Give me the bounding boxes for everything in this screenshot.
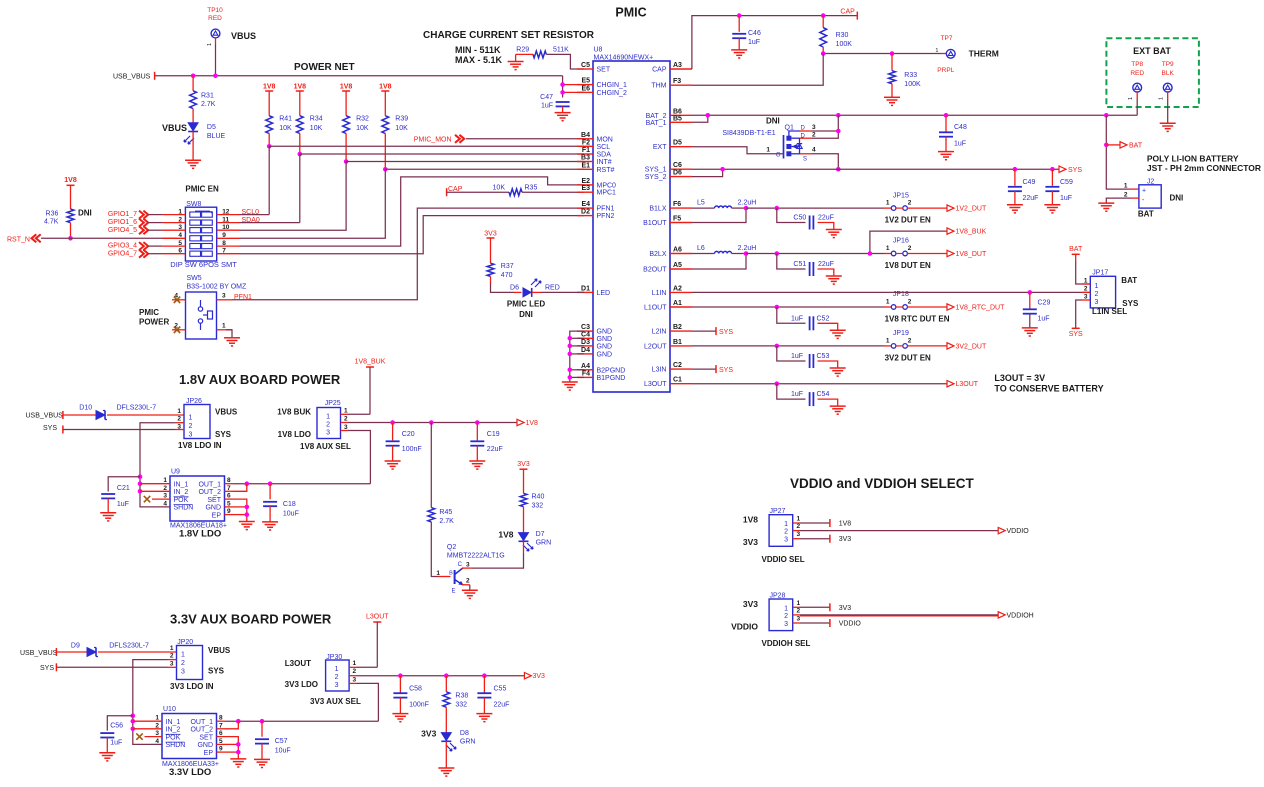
svg-text:GND: GND bbox=[597, 343, 613, 350]
svg-text:1: 1 bbox=[784, 521, 788, 528]
ground C49 bbox=[1007, 204, 1023, 206]
svg-text:D5: D5 bbox=[207, 124, 216, 131]
svg-text:F5: F5 bbox=[673, 216, 681, 223]
svg-text:GND: GND bbox=[597, 329, 613, 336]
wire R40 to D7 bbox=[523, 507, 525, 533]
svg-text:E6: E6 bbox=[581, 85, 590, 92]
svg-text:VDDIO SEL: VDDIO SEL bbox=[762, 555, 805, 564]
U8 right pin stubs and names bbox=[670, 68, 692, 70]
capacitor C19 22uF bbox=[476, 423, 478, 441]
ground C19 bbox=[469, 460, 485, 462]
svg-text:L1IN: L1IN bbox=[652, 290, 667, 297]
svg-text:SDA: SDA bbox=[597, 152, 612, 159]
svg-text:E2: E2 bbox=[581, 178, 590, 185]
svg-text:2: 2 bbox=[908, 245, 912, 252]
svg-text:L2OUT: L2OUT bbox=[644, 343, 667, 350]
junction SYS_2 bbox=[720, 167, 725, 172]
junction BAT B5 bbox=[706, 113, 711, 118]
capacitor C51 22uF bbox=[777, 254, 806, 270]
svg-text:1: 1 bbox=[797, 516, 801, 523]
svg-text:3: 3 bbox=[353, 676, 357, 683]
svg-text:C5: C5 bbox=[581, 62, 590, 69]
svg-text:GRN: GRN bbox=[536, 540, 552, 547]
svg-text:RST_N: RST_N bbox=[7, 236, 30, 243]
svg-text:INT#: INT# bbox=[597, 159, 612, 166]
svg-text:C2: C2 bbox=[673, 362, 682, 369]
junction C53 bbox=[775, 344, 780, 349]
svg-text:1: 1 bbox=[189, 415, 193, 422]
svg-text:GND: GND bbox=[205, 505, 221, 512]
svg-text:DFLS230L-7: DFLS230L-7 bbox=[117, 405, 157, 412]
wire power net to CHGIN bbox=[562, 76, 564, 98]
svg-text:C46: C46 bbox=[748, 30, 761, 37]
svg-text:22uF: 22uF bbox=[494, 702, 510, 709]
svg-text:R34: R34 bbox=[310, 116, 323, 123]
svg-text:BAT_1: BAT_1 bbox=[646, 120, 667, 127]
svg-text:B1: B1 bbox=[673, 339, 682, 346]
svg-text:PMIC: PMIC bbox=[139, 308, 159, 317]
svg-text:POK: POK bbox=[174, 497, 189, 504]
svg-text:D1: D1 bbox=[581, 285, 590, 292]
port BAT right bbox=[1106, 144, 1120, 146]
port L3OUT bbox=[947, 381, 954, 387]
wire D9 to JP20 pin1 bbox=[98, 651, 177, 653]
svg-text:2: 2 bbox=[908, 338, 912, 345]
svg-text:SYS_2: SYS_2 bbox=[645, 174, 667, 181]
wire JP30 pin2 3V3 rail bbox=[349, 675, 356, 677]
svg-text:C48: C48 bbox=[954, 124, 967, 131]
svg-text:BAT_2: BAT_2 bbox=[646, 113, 667, 120]
svg-text:L3OUT: L3OUT bbox=[956, 381, 979, 388]
wire L1IN row bbox=[692, 291, 1090, 293]
svg-text:C18: C18 bbox=[283, 501, 296, 508]
wire L1OUT row bbox=[692, 306, 884, 308]
svg-text:C4: C4 bbox=[581, 331, 590, 338]
svg-text:E: E bbox=[452, 589, 456, 595]
wire D5 to ground bbox=[192, 132, 194, 161]
junction gnd F4 bbox=[568, 375, 573, 380]
svg-text:1V8 DUT EN: 1V8 DUT EN bbox=[885, 261, 931, 270]
svg-text:3V3 AUX SEL: 3V3 AUX SEL bbox=[310, 697, 361, 706]
wire therm node bbox=[823, 53, 941, 55]
svg-text:OUT_2: OUT_2 bbox=[198, 489, 221, 496]
svg-text:L3OUT = 3V: L3OUT = 3V bbox=[994, 373, 1045, 383]
svg-text:L3OUT: L3OUT bbox=[285, 659, 311, 668]
svg-text:2: 2 bbox=[189, 423, 193, 430]
capacitor C18 10uF bbox=[269, 484, 271, 500]
svg-text:TP7: TP7 bbox=[941, 35, 953, 42]
svg-text:L1IN SEL: L1IN SEL bbox=[1092, 307, 1127, 316]
svg-text:10uF: 10uF bbox=[283, 511, 299, 518]
resistor R41 10K bbox=[266, 116, 273, 134]
ground C47 bbox=[555, 112, 571, 114]
svg-text:A3: A3 bbox=[673, 62, 682, 69]
svg-text:3V3: 3V3 bbox=[484, 231, 497, 238]
svg-text:GRN: GRN bbox=[460, 739, 476, 746]
svg-text:511K: 511K bbox=[553, 47, 569, 54]
LED D7 GRN bbox=[519, 533, 529, 541]
wire SDA to SW8 pin11 bbox=[299, 154, 301, 223]
svg-text:TP9: TP9 bbox=[1162, 61, 1174, 68]
svg-text:GPIO4_5: GPIO4_5 bbox=[108, 227, 137, 234]
ground R33 bbox=[884, 96, 900, 98]
svg-text:VDDIOH: VDDIOH bbox=[1007, 612, 1034, 619]
wire L6 to output bbox=[732, 253, 747, 255]
svg-text:C: C bbox=[458, 562, 463, 568]
svg-text:D4: D4 bbox=[581, 347, 590, 354]
wire U9 SET GND EP to ground bbox=[233, 499, 247, 521]
svg-text:RST#: RST# bbox=[597, 167, 615, 174]
svg-text:GND: GND bbox=[597, 336, 613, 343]
wire R36 to RST_N row bbox=[70, 223, 72, 239]
svg-text:1V8: 1V8 bbox=[839, 521, 852, 528]
LED D5 BLUE bbox=[188, 123, 198, 131]
svg-text:L3IN: L3IN bbox=[652, 367, 667, 374]
wire SYS to JP26 pin3 bbox=[63, 429, 175, 431]
svg-text:POWER: POWER bbox=[139, 318, 169, 327]
svg-text:1uF: 1uF bbox=[1038, 316, 1050, 323]
svg-text:Q2: Q2 bbox=[447, 544, 456, 551]
svg-text:1V8_BUK: 1V8_BUK bbox=[956, 229, 987, 236]
svg-text:1: 1 bbox=[886, 245, 890, 252]
svg-text:3V2_DUT: 3V2_DUT bbox=[956, 343, 987, 350]
svg-text:F2: F2 bbox=[582, 139, 590, 146]
capacitor C59 1uF bbox=[1051, 169, 1053, 186]
svg-text:1V8: 1V8 bbox=[379, 84, 392, 91]
capacitor C29 1uF bbox=[1029, 292, 1031, 308]
capacitor C20 100nF bbox=[392, 423, 394, 441]
svg-text:SHDN: SHDN bbox=[174, 505, 194, 512]
svg-text:C54: C54 bbox=[817, 391, 830, 398]
capacitor C46 1uF bbox=[738, 16, 740, 32]
svg-text:1.8V LDO: 1.8V LDO bbox=[179, 529, 221, 540]
ground C21 bbox=[100, 512, 116, 514]
svg-text:4: 4 bbox=[812, 147, 816, 154]
capacitor C21 1uF bbox=[108, 477, 140, 492]
wire 1V8 rail to R45 bbox=[430, 423, 432, 508]
svg-text:B1LX: B1LX bbox=[649, 206, 666, 213]
wire SDA row bbox=[300, 153, 584, 155]
svg-text:VDDIO: VDDIO bbox=[1007, 528, 1030, 535]
resistor R45 2.7K bbox=[428, 508, 435, 522]
svg-text:DFLS230L-7: DFLS230L-7 bbox=[109, 643, 149, 650]
wire JP25 pin3 to OUT_1 bbox=[341, 430, 349, 432]
ground C18 bbox=[262, 521, 278, 523]
wire TP9 to ground bbox=[1167, 92, 1169, 99]
svg-text:C1: C1 bbox=[673, 377, 682, 384]
ground Q2 bbox=[462, 589, 478, 591]
junction R45 bbox=[429, 420, 434, 425]
svg-text:1uF: 1uF bbox=[117, 501, 129, 508]
svg-text:22uF: 22uF bbox=[1023, 195, 1039, 202]
ground C20 bbox=[385, 460, 401, 462]
svg-text:R36: R36 bbox=[46, 210, 59, 217]
svg-text:L5: L5 bbox=[697, 200, 705, 207]
svg-text:2: 2 bbox=[1084, 286, 1088, 293]
svg-text:D2: D2 bbox=[581, 209, 590, 216]
junction SYS C49 bbox=[1013, 167, 1018, 172]
svg-text:OUT_2: OUT_2 bbox=[190, 727, 213, 734]
wire JP25 pin2 1V8 rail bbox=[341, 422, 349, 424]
svg-text:10K: 10K bbox=[279, 125, 292, 132]
svg-text:2: 2 bbox=[797, 607, 801, 614]
junction power net R31 bbox=[191, 74, 196, 79]
svg-text:1V8: 1V8 bbox=[498, 530, 513, 540]
junction U9 ep bbox=[245, 512, 250, 517]
junction therm R33 bbox=[890, 51, 895, 56]
junction C29 bbox=[1028, 290, 1033, 295]
port SYS right bbox=[1059, 166, 1066, 172]
svg-text:C56: C56 bbox=[110, 723, 123, 730]
svg-text:C50: C50 bbox=[793, 215, 806, 222]
svg-text:B1OUT: B1OUT bbox=[643, 220, 667, 227]
svg-text:3: 3 bbox=[1095, 299, 1099, 306]
port 3V3 rail bbox=[524, 673, 531, 679]
port 1V2_DUT bbox=[947, 205, 954, 211]
svg-text:R39: R39 bbox=[395, 116, 408, 123]
svg-text:1V8 LDO: 1V8 LDO bbox=[278, 430, 311, 439]
ground C59 bbox=[1044, 204, 1060, 206]
wire R38 to D8 bbox=[445, 707, 447, 732]
junction U10 gnd 5 bbox=[236, 742, 241, 747]
svg-text:JP17: JP17 bbox=[1092, 270, 1108, 277]
ground C53 bbox=[830, 367, 846, 369]
svg-text:22uF: 22uF bbox=[818, 261, 834, 268]
wire BAT_1 join bbox=[692, 115, 708, 122]
svg-text:BLK: BLK bbox=[1162, 70, 1175, 77]
resistor R40 332 bbox=[520, 493, 527, 506]
wire SW5 pin1 to ground bbox=[226, 330, 232, 338]
svg-text:R30: R30 bbox=[836, 32, 849, 39]
wire R45 to Q2 base bbox=[431, 522, 438, 577]
svg-text:POLY LI-ION BATTERY: POLY LI-ION BATTERY bbox=[1147, 154, 1239, 164]
svg-text:D8: D8 bbox=[460, 730, 469, 737]
junction C57 bbox=[260, 719, 265, 724]
wire JP30 pin1 bbox=[349, 666, 356, 668]
capacitor C48 1uF bbox=[945, 115, 947, 131]
wire R34 to bus bbox=[299, 134, 301, 155]
svg-text:VDDIOH SEL: VDDIOH SEL bbox=[762, 639, 811, 648]
svg-text:100nF: 100nF bbox=[409, 702, 429, 709]
svg-text:C19: C19 bbox=[487, 431, 500, 438]
svg-text:PMIC LED: PMIC LED bbox=[507, 300, 545, 309]
junction gnd C4 bbox=[568, 336, 573, 341]
junction power net TP10 bbox=[213, 74, 218, 79]
svg-text:1V8_RTC_DUT: 1V8_RTC_DUT bbox=[956, 305, 1006, 312]
svg-text:1V8 RTC DUT EN: 1V8 RTC DUT EN bbox=[885, 315, 950, 324]
svg-text:JP25: JP25 bbox=[325, 400, 341, 407]
svg-text:SHDN: SHDN bbox=[166, 742, 186, 749]
svg-text:PMIC_MON: PMIC_MON bbox=[414, 137, 452, 144]
wire OUT_1 net bbox=[233, 483, 370, 485]
svg-text:D7: D7 bbox=[536, 531, 545, 538]
svg-text:R41: R41 bbox=[279, 116, 292, 123]
svg-text:1V8 AUX SEL: 1V8 AUX SEL bbox=[300, 442, 351, 451]
svg-text:D3: D3 bbox=[581, 339, 590, 346]
svg-text:R33: R33 bbox=[904, 72, 917, 79]
svg-text:1V8: 1V8 bbox=[263, 84, 276, 91]
svg-text:3V3 LDO: 3V3 LDO bbox=[285, 680, 318, 689]
svg-text:PFN1: PFN1 bbox=[597, 206, 615, 213]
svg-text:100nF: 100nF bbox=[402, 446, 422, 453]
svg-text:1uF: 1uF bbox=[791, 315, 803, 322]
wire SCL0 from SW8 pin12 bbox=[240, 214, 270, 216]
svg-text:B4: B4 bbox=[581, 132, 590, 139]
junction C20 bbox=[390, 420, 395, 425]
wire SYS_2 join bbox=[692, 169, 723, 176]
junction R41 bbox=[267, 144, 272, 149]
svg-text:2: 2 bbox=[466, 578, 470, 585]
svg-text:C53: C53 bbox=[817, 353, 830, 360]
junction U10 ep bbox=[236, 750, 241, 755]
wire R32 to bus bbox=[345, 134, 347, 162]
svg-text:SYS_1: SYS_1 bbox=[645, 167, 667, 174]
junction R38 bbox=[444, 673, 449, 678]
wire JP19 to port bbox=[907, 345, 947, 347]
svg-text:RED: RED bbox=[545, 285, 560, 292]
wire SDA0 from SW8 pin11 bbox=[240, 222, 300, 224]
port 1V8 rail bbox=[517, 419, 524, 425]
svg-text:D6: D6 bbox=[673, 170, 682, 177]
svg-text:BAT: BAT bbox=[1138, 210, 1154, 219]
svg-text:MAX - 5.1K: MAX - 5.1K bbox=[455, 55, 503, 65]
wire PFN2 from SW8 pin7 bbox=[240, 216, 585, 254]
junction 1V8_BUK bbox=[868, 251, 873, 256]
svg-text:POK: POK bbox=[166, 734, 181, 741]
ground C51 bbox=[826, 275, 842, 277]
wire JP25 pin1 bbox=[341, 413, 349, 415]
svg-text:3: 3 bbox=[326, 430, 330, 437]
wire U8 ground bus bbox=[570, 331, 584, 382]
junction input C21 row bbox=[138, 474, 143, 479]
wire L3OUT row bbox=[692, 383, 947, 385]
junction L6 out bbox=[744, 251, 749, 256]
svg-text:1V8_DUT: 1V8_DUT bbox=[956, 251, 987, 258]
svg-text:U8: U8 bbox=[594, 47, 603, 54]
wire SCL row bbox=[269, 145, 584, 147]
svg-text:100K: 100K bbox=[836, 41, 853, 48]
wire JP17 pin3 to SYS bbox=[1076, 300, 1082, 328]
wire PFN1 to U8 bbox=[232, 208, 584, 300]
svg-text:1: 1 bbox=[886, 338, 890, 345]
svg-text:VDDIO: VDDIO bbox=[839, 621, 862, 628]
ground TP9 bbox=[1160, 122, 1176, 124]
svg-text:1: 1 bbox=[1128, 97, 1134, 100]
svg-text:1: 1 bbox=[177, 408, 181, 415]
svg-text:1: 1 bbox=[1095, 283, 1099, 290]
capacitor C55 22uF bbox=[483, 676, 485, 693]
svg-text:1uF: 1uF bbox=[954, 141, 966, 148]
svg-text:EP: EP bbox=[212, 512, 222, 519]
svg-text:1: 1 bbox=[797, 600, 801, 607]
port 1V8_BUK bbox=[947, 228, 954, 234]
svg-text:C59: C59 bbox=[1060, 179, 1073, 186]
svg-text:IN_2: IN_2 bbox=[166, 727, 181, 734]
ground J2 bbox=[1098, 202, 1114, 204]
switch SW8 pin stubs bbox=[162, 214, 185, 216]
wire J2 pin2 to ground bbox=[1131, 197, 1139, 199]
wire JP28 pin1 stub bbox=[793, 606, 800, 608]
svg-text:2.2uH: 2.2uH bbox=[738, 245, 757, 252]
svg-text:3V3: 3V3 bbox=[533, 673, 546, 680]
ground U10 bbox=[230, 758, 246, 760]
svg-text:B3: B3 bbox=[581, 155, 590, 162]
svg-text:A2: A2 bbox=[673, 285, 682, 292]
svg-text:U10: U10 bbox=[163, 706, 176, 713]
wire therm to THM pin bbox=[692, 54, 823, 86]
junction U9 gnd 5 bbox=[245, 505, 250, 510]
wire L5 to output bbox=[732, 207, 747, 209]
ground U8 bbox=[562, 381, 578, 383]
capacitor C50 22uF bbox=[777, 208, 806, 222]
svg-text:1.8V AUX BOARD POWER: 1.8V AUX BOARD POWER bbox=[179, 372, 341, 387]
svg-text:GPIO1_7: GPIO1_7 bbox=[108, 211, 137, 218]
wire MPC0 from SW8 pin8 bbox=[240, 177, 585, 246]
svg-text:470: 470 bbox=[501, 272, 513, 279]
port 3V2_DUT bbox=[947, 343, 954, 349]
svg-text:1V8 BUK: 1V8 BUK bbox=[277, 408, 311, 417]
port 1V8_RTC_DUT bbox=[947, 304, 954, 310]
resistor R34 10K bbox=[296, 116, 303, 134]
wire D6 to LED pin bbox=[532, 291, 541, 293]
svg-text:D9: D9 bbox=[71, 643, 80, 650]
junction C19 bbox=[475, 420, 480, 425]
svg-text:1: 1 bbox=[886, 299, 890, 306]
svg-text:B5: B5 bbox=[673, 115, 682, 122]
inductor L5 2.2uH bbox=[692, 207, 715, 209]
svg-text:22uF: 22uF bbox=[818, 215, 834, 222]
DNI X on U9 POK bbox=[144, 496, 150, 502]
svg-text:4: 4 bbox=[163, 500, 167, 507]
svg-text:1uF: 1uF bbox=[791, 391, 803, 398]
svg-text:DNI: DNI bbox=[78, 208, 92, 217]
svg-text:PRPL: PRPL bbox=[937, 67, 954, 74]
svg-text:E5: E5 bbox=[581, 78, 590, 85]
capacitor C49 22uF bbox=[1014, 169, 1016, 186]
wire SYS net bbox=[692, 168, 1059, 170]
svg-text:C49: C49 bbox=[1023, 179, 1036, 186]
svg-text:2: 2 bbox=[908, 299, 912, 306]
svg-text:1uF: 1uF bbox=[748, 39, 760, 46]
svg-text:L3OUT: L3OUT bbox=[644, 381, 667, 388]
svg-text:EXT BAT: EXT BAT bbox=[1133, 46, 1171, 56]
svg-text:L3OUT: L3OUT bbox=[366, 614, 389, 621]
svg-text:3: 3 bbox=[181, 669, 185, 676]
svg-text:1: 1 bbox=[935, 48, 938, 54]
wire R37 to D6 bbox=[490, 276, 492, 283]
junction gnd D3 bbox=[568, 344, 573, 349]
junction Q1 source SYS bbox=[836, 167, 841, 172]
wire R41 to bus bbox=[268, 134, 270, 147]
svg-text:10K: 10K bbox=[493, 185, 506, 192]
svg-text:E3: E3 bbox=[581, 185, 590, 192]
wire JP30 pin3 to U10 OUT bbox=[349, 682, 356, 684]
ground C29 bbox=[1022, 327, 1038, 329]
svg-text:SYS: SYS bbox=[1068, 167, 1082, 174]
svg-text:JP19: JP19 bbox=[893, 330, 909, 337]
wire 1V8_BUK branch bbox=[870, 231, 947, 253]
junction CHGIN_2 bbox=[560, 90, 565, 95]
svg-text:1: 1 bbox=[207, 43, 213, 46]
resistor R36 4.7K bbox=[67, 209, 74, 223]
ground C52 bbox=[830, 329, 846, 331]
port VDDIO bbox=[998, 527, 1005, 533]
svg-text:GPIO3_4: GPIO3_4 bbox=[108, 243, 137, 250]
svg-text:10K: 10K bbox=[395, 125, 408, 132]
svg-text:GND: GND bbox=[597, 351, 613, 358]
svg-text:B2LX: B2LX bbox=[649, 251, 666, 258]
wire OUT_2 join bbox=[233, 484, 247, 492]
